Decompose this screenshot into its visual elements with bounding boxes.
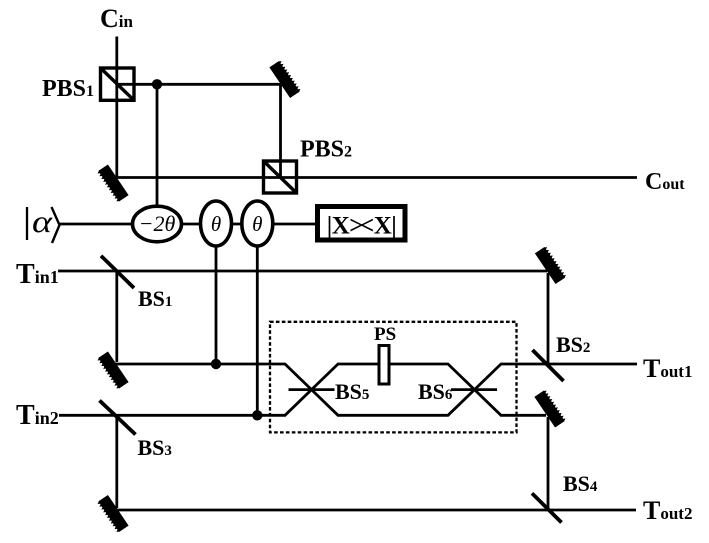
wire Tin1 horizontal to mirror M4 [58, 270, 547, 273]
wire mirror M4 down to BS2 [547, 273, 550, 366]
beam splitter BS1 slash [101, 256, 134, 288]
wire PBS1 to mirror M1 (top C arm) [117, 83, 281, 86]
mirror M1 top of C loop [269, 60, 301, 98]
PBS2 polarizing beam splitter box [264, 161, 297, 193]
tick through BS5 crossing [289, 388, 335, 391]
junction node theta2 on Tin2 [252, 410, 262, 420]
wire Tout2 horizontal from mirror M6 through BS4 [114, 509, 636, 512]
phase modulator -2theta [133, 206, 182, 242]
svg-text:PS: PS [374, 324, 396, 345]
wire mirror M2 through PBS2 to Cout [115, 176, 637, 179]
svg-text:−2θ: −2θ [139, 211, 176, 236]
phase modulator theta1 [201, 201, 232, 246]
label alpha ket [26, 207, 28, 240]
svg-text:θ: θ [211, 212, 221, 236]
tick through BS6 crossing [451, 388, 497, 391]
beam splitter BS2 slash [533, 350, 564, 381]
phase shifter PS rectangle [379, 346, 389, 385]
wire mirror M1 down to PBS2 [279, 85, 282, 178]
wire upper interferometer arm A: M3 across BS5 lower, BS6 upper, BS2 to Tout1 [114, 364, 637, 415]
wire junction dot to -2theta ellipse [156, 84, 159, 215]
wire theta1 ellipse down to junction on T1 arm [215, 234, 218, 364]
wire Cin vertical into PBS1 down to mirror M2 [115, 37, 118, 180]
junction node theta1 on arm A [211, 359, 221, 369]
beam splitter BS3 slash [100, 401, 136, 435]
wire mirror M5 down to BS4 [547, 417, 550, 510]
wire BS1 down to mirror M3 [115, 271, 118, 362]
PBS1 polarizing beam splitter box [101, 68, 135, 100]
svg-text:θ: θ [252, 212, 262, 236]
phase modulator theta2 [242, 201, 273, 246]
wire alpha line to X-measurement box [59, 223, 315, 226]
svg-text:α: α [32, 203, 53, 239]
projector box |X><X| [318, 207, 406, 241]
wire theta2 ellipse down to junction on Tin2 line [256, 234, 259, 415]
mirror M6 below BS3 [97, 495, 129, 533]
junction node on C arm [152, 79, 162, 89]
mirror M2 below PBS1 [97, 164, 129, 202]
mirror M4 right end of Tin1 [535, 246, 567, 284]
wire lower interferometer arm B: Tin2 across BS5 upper, BS6 lower to mirror M5 [59, 364, 546, 415]
beam splitter BS4 slash [532, 493, 562, 522]
mirror M3 below BS1 [97, 351, 129, 389]
dashed enclosure box [270, 322, 517, 433]
svg-text:|X><X|: |X><X| [327, 213, 397, 240]
wire BS3 down to mirror M6 [115, 415, 118, 508]
mirror M5 right end of arm B [534, 389, 566, 427]
